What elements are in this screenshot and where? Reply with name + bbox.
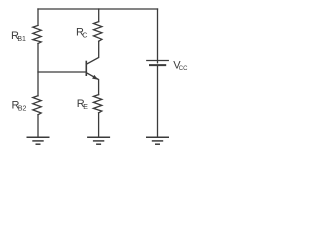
- svg-text:E: E: [83, 104, 88, 111]
- svg-text:B1: B1: [17, 36, 26, 43]
- svg-text:CC: CC: [179, 66, 188, 72]
- svg-text:B2: B2: [18, 105, 27, 112]
- svg-text:C: C: [82, 32, 87, 39]
